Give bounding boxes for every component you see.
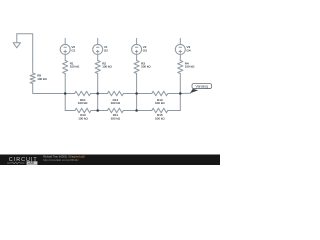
svg-text:Vanalog: Vanalog	[196, 85, 209, 89]
label V1 G2	[104, 45, 108, 52]
footer CircuitLab logo	[7, 157, 38, 165]
label R4 100 kΩ	[185, 61, 195, 68]
resistor R15	[152, 108, 168, 113]
voltage source V1	[93, 38, 103, 60]
wire top rail segment C	[123, 93, 151, 95]
footer bar	[0, 155, 220, 166]
svg-text:100 kΩ: 100 kΩ	[78, 116, 88, 120]
resistor R12	[75, 108, 91, 113]
label V2 G3	[143, 45, 147, 52]
resistor R4	[178, 61, 183, 74]
resistor R13	[152, 91, 168, 96]
wire R1 to bottom rail	[64, 74, 66, 111]
svg-text:G4: G4	[187, 49, 191, 53]
svg-text:100 kΩ: 100 kΩ	[70, 65, 80, 69]
wire R4 to bottom rail	[179, 74, 181, 111]
svg-text:http://circuitlab.com/c/9fh42z: http://circuitlab.com/c/9fh42z	[43, 158, 79, 162]
svg-text:100 kΩ: 100 kΩ	[37, 77, 47, 81]
wire R9 to top rail	[33, 84, 65, 94]
label R10 100 kΩ	[78, 98, 88, 105]
node junction dots	[64, 92, 182, 112]
wire bottom rail segment D	[168, 110, 181, 112]
svg-text:100 kΩ: 100 kΩ	[111, 116, 121, 120]
label R2 100 kΩ	[102, 61, 112, 68]
resistor R1	[63, 61, 68, 74]
svg-text:100 kΩ: 100 kΩ	[155, 116, 165, 120]
voltage source V2	[132, 38, 142, 60]
svg-text:100 kΩ: 100 kΩ	[111, 101, 121, 105]
svg-text:G2: G2	[104, 49, 108, 53]
net flag Vanalog	[190, 84, 212, 94]
ground	[13, 34, 20, 48]
svg-text:LAB: LAB	[28, 161, 35, 165]
svg-text:G1: G1	[71, 49, 75, 53]
resistor R14	[107, 91, 123, 96]
label R9 100 kΩ	[37, 74, 47, 81]
wire bottom rail segment B	[91, 110, 107, 112]
resistor R9	[30, 60, 35, 84]
wire top rail segment B	[91, 93, 108, 95]
svg-text:100 kΩ: 100 kΩ	[155, 101, 165, 105]
voltage source V3	[175, 38, 185, 60]
footer attribution text	[43, 154, 85, 162]
wire output stub to flag	[180, 92, 190, 94]
wire R3 to bottom rail	[136, 74, 138, 111]
wire top rail segment A	[65, 93, 74, 95]
svg-text:G3: G3	[143, 49, 147, 53]
label R12 100 kΩ	[78, 113, 88, 120]
label R11 100 kΩ	[111, 113, 121, 120]
label R1 100 kΩ	[70, 61, 80, 68]
resistor R3	[134, 61, 139, 74]
wire bottom rail segment A	[65, 110, 75, 112]
svg-text:100 kΩ: 100 kΩ	[141, 65, 151, 69]
label R15 100 kΩ	[155, 113, 165, 120]
resistor R2	[95, 61, 100, 74]
wire top rail segment D	[168, 93, 181, 95]
resistor R10	[75, 91, 91, 96]
wire R2 to bottom rail	[97, 74, 99, 111]
wire ground to R9	[17, 34, 33, 60]
label R14 100 kΩ	[111, 98, 121, 105]
label V3 G4	[187, 45, 191, 52]
svg-text:100 kΩ: 100 kΩ	[78, 101, 88, 105]
svg-text:100 kΩ: 100 kΩ	[185, 65, 195, 69]
svg-text:100 kΩ: 100 kΩ	[102, 65, 112, 69]
label R3 100 kΩ	[141, 61, 151, 68]
label R13 100 kΩ	[155, 98, 165, 105]
resistor R11	[107, 108, 123, 113]
wire bottom rail segment C	[123, 110, 151, 112]
component labels	[37, 45, 195, 120]
label V0 G1	[71, 45, 75, 52]
voltage source V0	[60, 38, 70, 60]
